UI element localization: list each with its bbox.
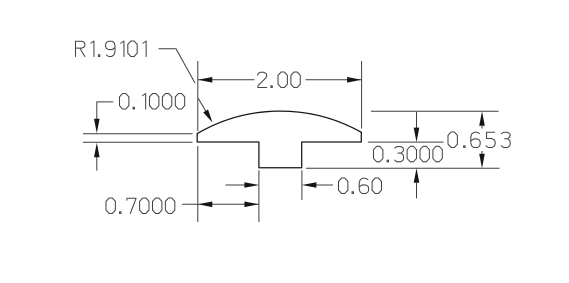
dim 0.1000 extension lines	[83, 133, 193, 135]
dim 0.7000 stem-left extension line	[258, 170, 260, 222]
text 0.1000	[120, 94, 185, 110]
dim 2.00 line	[198, 79, 255, 81]
arc top surface R1.9101	[197, 111, 361, 134]
text 0.653	[448, 132, 510, 148]
dim 0.7000 left extension line	[197, 146, 199, 222]
dim 0.60 arrow lines	[226, 184, 247, 186]
text R1.9101	[76, 41, 147, 57]
dim 0.653 top extension line	[371, 110, 499, 112]
text 2.00	[258, 72, 301, 88]
text 0.7000	[106, 198, 175, 214]
text 0.3000	[374, 146, 443, 162]
text 0.60	[339, 178, 382, 194]
R1.9101 leader	[159, 49, 196, 83]
dim 0.653 arrow stems	[481, 126, 483, 129]
left edge	[196, 134, 198, 142]
dim 2.00 extension lines	[197, 61, 199, 131]
profile outline of T-molding cross-section	[197, 111, 361, 168]
bottom with stem	[197, 142, 361, 168]
dim 0.3000 arrow stems	[416, 112, 418, 128]
dim 0.7000 line	[182, 203, 259, 205]
dim 0.1000 arrow stems and leader	[97, 102, 113, 119]
right edge	[360, 132, 362, 141]
arrowheads	[198, 77, 213, 83]
dim 0.3000 top extension line	[368, 141, 444, 143]
dim 0.60 stem-right extension line	[301, 170, 303, 200]
dim 0.653 bottom extension line	[306, 167, 500, 169]
